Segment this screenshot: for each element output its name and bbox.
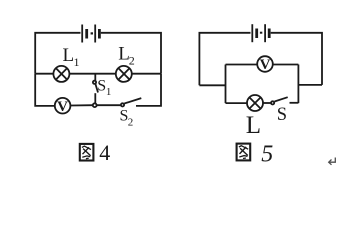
wire: top edge right segment xyxy=(271,33,322,85)
wire: lamp to S contact xyxy=(263,102,271,104)
svg-text:1: 1 xyxy=(74,55,80,69)
wire: bottom row V to node xyxy=(71,104,93,106)
wire: V row left xyxy=(226,64,258,66)
wire: lamp row middle (L1 to L2) xyxy=(70,73,117,75)
wire: left connector to inner rectangle xyxy=(199,84,225,86)
svg-text:2: 2 xyxy=(129,54,135,68)
voltmeter V2 (right circuit) xyxy=(257,56,273,72)
label 图4 box glyph xyxy=(80,144,94,161)
svg-text:5: 5 xyxy=(261,142,273,168)
wire: top edge left segment xyxy=(199,33,250,86)
wire: lamp row left (left edge to L1) xyxy=(35,73,53,75)
wire: S1 branch lower xyxy=(94,93,96,103)
battery B2 cell1 short plate xyxy=(255,29,258,39)
wire: inner rect left vertical xyxy=(225,65,227,104)
switch S contact xyxy=(271,101,274,104)
lamp L (right circuit) xyxy=(247,95,263,111)
wire: lamp row right (L2 to right edge) xyxy=(132,73,161,75)
battery B2 cell2 long plate xyxy=(264,24,266,42)
lamp L2 xyxy=(116,66,132,82)
paragraph return mark (gray) xyxy=(329,158,336,165)
voltmeter V (left circuit) xyxy=(55,98,71,114)
svg-text:L: L xyxy=(246,112,261,139)
wire: V row right xyxy=(273,64,299,66)
svg-text:2: 2 xyxy=(128,117,134,129)
svg-text:V: V xyxy=(57,99,68,115)
svg-text:S: S xyxy=(277,105,287,125)
node B: open junction node at bottom of S1 branch xyxy=(93,103,97,107)
battery B2 middle dash xyxy=(260,32,262,34)
wire: lamp row left xyxy=(226,102,248,104)
battery B1 middle dot xyxy=(91,32,93,34)
svg-text:V: V xyxy=(260,57,271,73)
label 图5 box glyph xyxy=(237,144,251,161)
svg-text:S: S xyxy=(97,78,106,95)
wire: right connector to inner rectangle xyxy=(298,84,322,86)
wire: inner rect right vertical xyxy=(297,65,299,104)
switch S1 blade xyxy=(95,84,98,93)
switch S2 blade xyxy=(124,98,141,103)
wire: bottom row node to S2 contact xyxy=(97,104,121,106)
wire: top edge left segment (battery to top-left corner) xyxy=(35,33,80,74)
battery B2 cell2 short plate xyxy=(268,29,271,39)
svg-text:4: 4 xyxy=(99,140,110,165)
battery B1 cell1 short plate xyxy=(85,29,88,39)
battery B1 cell1 long plate xyxy=(81,25,83,43)
wire: right edge lower segment xyxy=(136,74,161,106)
svg-text:1: 1 xyxy=(106,86,112,98)
wire: top edge right segment (battery to top-right corner) xyxy=(101,33,161,74)
switch S1 contact xyxy=(93,81,96,84)
wire: S to inner right corner xyxy=(290,102,299,104)
svg-text:L: L xyxy=(63,45,75,66)
battery B2 cell1 long plate xyxy=(251,24,253,42)
wire: left edge lower segment xyxy=(35,74,54,106)
switch S blade xyxy=(275,97,288,101)
switch S2 contact xyxy=(121,103,124,106)
battery B1 cell2 short plate xyxy=(98,29,101,39)
battery B1 cell2 long plate xyxy=(94,25,96,43)
wire: S1 branch upper xyxy=(94,74,96,81)
lamp L1 xyxy=(53,66,69,82)
